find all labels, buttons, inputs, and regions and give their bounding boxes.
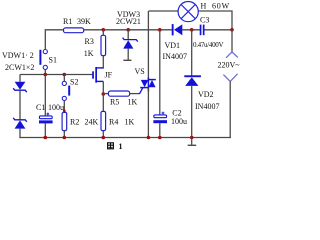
node VD2 bottom bbox=[190, 136, 194, 140]
switch S2 bbox=[62, 75, 70, 113]
svg-text:H: H bbox=[201, 2, 207, 11]
wire bottom rail bbox=[19, 137, 230, 139]
wire middle gate bus bbox=[20, 74, 92, 76]
svg-text:1K: 1K bbox=[84, 49, 94, 58]
svg-text:0.47u/400V: 0.47u/400V bbox=[193, 41, 223, 49]
wire left zener branch top bbox=[19, 75, 21, 82]
wire C1 bottom bbox=[44, 123, 46, 137]
svg-text:2CW21: 2CW21 bbox=[116, 17, 141, 26]
svg-text:60W: 60W bbox=[212, 2, 230, 11]
svg-text:R1: R1 bbox=[63, 17, 72, 26]
wire triac column bbox=[147, 11, 149, 80]
wire DC rail middle segment bbox=[84, 29, 172, 31]
diode VD1 bbox=[172, 24, 183, 35]
resistor R1 bbox=[64, 28, 84, 33]
svg-text:VD2: VD2 bbox=[198, 90, 214, 99]
resistor R5 bbox=[108, 91, 129, 96]
wire VD2 column top bbox=[191, 30, 193, 76]
svg-text:R3: R3 bbox=[85, 37, 94, 46]
wire S1 bottom bbox=[44, 70, 46, 75]
wire R5 to gate bbox=[130, 93, 140, 95]
svg-text:S2: S2 bbox=[70, 78, 78, 87]
wire VD2 bottom bbox=[191, 86, 193, 138]
wire JFET source down bbox=[102, 81, 104, 94]
svg-text:S1: S1 bbox=[49, 55, 57, 64]
wire right column to plug bbox=[231, 30, 233, 52]
svg-text:R4: R4 bbox=[109, 118, 118, 127]
svg-text:24K: 24K bbox=[85, 118, 99, 127]
node S2 junction bbox=[63, 73, 67, 77]
node C1 bottom bbox=[44, 136, 48, 140]
svg-text:2CW1×2: 2CW1×2 bbox=[5, 63, 34, 72]
zener diode VDW3 bbox=[123, 38, 138, 49]
resistor R4 bbox=[101, 111, 106, 130]
lamp H bbox=[178, 2, 198, 22]
wire VDW3 bottom stem bbox=[127, 49, 129, 61]
svg-text:C1: C1 bbox=[36, 103, 45, 112]
svg-text:R2: R2 bbox=[70, 118, 79, 127]
svg-text:220V~: 220V~ bbox=[218, 61, 241, 70]
svg-text:VD1: VD1 bbox=[165, 41, 181, 50]
node VDW3 top bbox=[126, 28, 130, 32]
triac VS bbox=[140, 78, 156, 92]
node triac bottom bbox=[147, 136, 151, 140]
svg-text:39K: 39K bbox=[77, 17, 91, 26]
wire lower prong to bottom rail bbox=[229, 81, 231, 138]
svg-text:JF: JF bbox=[105, 71, 113, 80]
zener diode VDW2 bbox=[13, 118, 27, 129]
transistor JF (field-effect) bbox=[92, 67, 103, 83]
resistor R2 bbox=[62, 112, 67, 130]
AC plug prong lower bbox=[223, 74, 237, 82]
wire R2 bottom bbox=[63, 131, 65, 138]
node R3 top bbox=[102, 28, 106, 32]
wire C2 column bbox=[159, 30, 161, 115]
AC plug prong upper bbox=[226, 52, 238, 58]
wire lamp rail bbox=[148, 10, 178, 12]
svg-text:R5: R5 bbox=[110, 97, 119, 106]
capacitor C2 bbox=[153, 112, 167, 124]
zener diode VDW1 bbox=[13, 82, 27, 92]
svg-text:1: 1 bbox=[119, 142, 123, 151]
resistor R3 bbox=[101, 35, 106, 55]
node source/R4/R5 bbox=[102, 92, 106, 96]
wire gate diagonal bbox=[139, 88, 142, 94]
wire R3 top stub bbox=[102, 30, 104, 36]
node R2 bottom bbox=[63, 136, 67, 140]
switch S1 bbox=[39, 50, 47, 70]
svg-text:100u: 100u bbox=[171, 117, 187, 126]
wire R4 top bbox=[102, 94, 104, 111]
caption 图 1 bbox=[108, 143, 114, 149]
wire triac bottom bbox=[147, 88, 149, 138]
terminal bar below rail bbox=[188, 138, 197, 146]
wire node to R5 bbox=[103, 93, 108, 95]
svg-text:1K: 1K bbox=[128, 97, 138, 106]
capacitor C3 bbox=[200, 25, 205, 36]
node C2 top bbox=[158, 28, 162, 32]
wire between zeners bbox=[19, 90, 21, 120]
svg-text:IN4007: IN4007 bbox=[163, 52, 187, 61]
terminal bar VDW3 bbox=[123, 59, 131, 61]
svg-text:VDW1· 2: VDW1· 2 bbox=[2, 51, 34, 60]
wire to right column bbox=[204, 29, 232, 31]
capacitor C1 bbox=[39, 113, 53, 124]
wire DC rail right segment bbox=[182, 29, 200, 31]
wire lamp rail right bbox=[198, 11, 232, 30]
node C2 bottom bbox=[158, 136, 162, 140]
diode VD2 bbox=[184, 75, 201, 86]
svg-text:VS: VS bbox=[135, 67, 145, 76]
node S1/C1 junction bbox=[44, 73, 48, 77]
wire C2 bottom bbox=[159, 123, 161, 137]
wire C1 stem bbox=[44, 75, 46, 116]
wire R3 to JFET drain bbox=[102, 56, 104, 69]
node R2 top bbox=[63, 110, 66, 113]
node VD2 top bbox=[190, 28, 194, 32]
wire zener branch bottom bbox=[19, 129, 21, 139]
svg-text:C3: C3 bbox=[200, 15, 209, 24]
node R4 bottom bbox=[102, 136, 106, 140]
wire R4 bottom bbox=[102, 131, 104, 138]
svg-text:IN4007: IN4007 bbox=[195, 102, 219, 111]
wire VDW3 stub bbox=[127, 30, 129, 40]
wire top DC rail left segment bbox=[45, 30, 63, 50]
svg-text:100u: 100u bbox=[48, 103, 64, 112]
node top right bbox=[230, 28, 234, 32]
svg-text:1K: 1K bbox=[125, 118, 135, 127]
